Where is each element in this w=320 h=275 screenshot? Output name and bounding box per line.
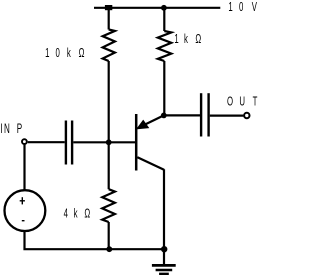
svg-text:k: k [74, 207, 78, 222]
svg-text:k: k [67, 46, 71, 61]
wire: capacitor to transistor base [73, 141, 135, 143]
node: emitter / output junction [161, 113, 167, 119]
ground: symbol bars [152, 265, 176, 274]
wire: input terminal down to signal source [23, 145, 25, 190]
resistor 4 kOhm (lower bias resistor) [102, 189, 115, 222]
label: source + polarity mark [20, 197, 25, 204]
node: junction of collector line with ground rail [161, 246, 167, 252]
transistor Q1 collector lead [137, 157, 164, 170]
node: junction of 1k resistor with supply rail [161, 5, 167, 11]
label: source - polarity mark [22, 220, 25, 222]
svg-text:N: N [4, 122, 10, 137]
wire: 1k resistor down to emitter node [163, 61, 165, 115]
svg-text:Ω: Ω [84, 207, 90, 222]
transistor Q1 emitter lead with arrow toward base [137, 115, 164, 128]
ground: stem [163, 249, 165, 264]
node: base / bias divider junction [106, 139, 112, 145]
svg-text:0: 0 [56, 46, 60, 61]
wire: rail down to top of 1k resistor [163, 8, 165, 31]
wire: +10V top supply rail [94, 7, 220, 9]
terminal: output open circle [244, 113, 249, 118]
wire: output capacitor to output terminal [210, 114, 244, 116]
resistor 10 kOhm (upper bias resistor) [103, 30, 115, 62]
node: junction of 4k resistor with ground rail [106, 246, 112, 252]
source V1: AC/DC signal source circle [5, 190, 46, 231]
label: 1 k Ohm value [174, 32, 201, 47]
wire: source down and along the bottom ground rail [23, 231, 164, 249]
svg-text:1: 1 [174, 32, 178, 47]
wire: 4k resistor down to ground rail [108, 222, 110, 249]
wire: emitter node to output capacitor [164, 114, 200, 116]
label: 4 k Ohm value [64, 207, 91, 222]
svg-text:4: 4 [64, 207, 68, 222]
wire: 10k resistor down to base node [108, 61, 110, 142]
wire: rail down to top of 10k resistor [108, 8, 110, 30]
svg-text:k: k [184, 32, 188, 47]
svg-text:Ω: Ω [195, 32, 201, 47]
label: 10 V supply [228, 0, 257, 15]
svg-text:U: U [239, 94, 245, 109]
svg-text:O: O [227, 94, 233, 109]
wire: base node down to 4k resistor [108, 142, 110, 189]
svg-text:V: V [252, 0, 258, 15]
wire: input terminal to coupling capacitor [28, 141, 65, 143]
label: INP input terminal [0, 122, 22, 137]
terminal: input open circle [22, 139, 27, 144]
node: square junction at top of 10k resistor [105, 5, 112, 10]
label: 10 k Ohm value [45, 46, 84, 61]
svg-text:1: 1 [45, 46, 49, 61]
svg-text:Ω: Ω [79, 46, 85, 61]
capacitor: input coupling capacitor [66, 121, 72, 165]
capacitor: output coupling capacitor [201, 93, 209, 136]
transistor Q1 (PNP) base bar [135, 114, 138, 171]
svg-text:I: I [0, 122, 2, 137]
resistor 1 kOhm (emitter load) [158, 31, 172, 61]
svg-text:0: 0 [239, 0, 243, 15]
label: OUT output terminal [227, 94, 258, 109]
svg-text:1: 1 [228, 0, 232, 15]
svg-text:T: T [253, 94, 258, 109]
svg-text:P: P [17, 122, 22, 137]
wire: collector down to ground rail [163, 169, 165, 249]
